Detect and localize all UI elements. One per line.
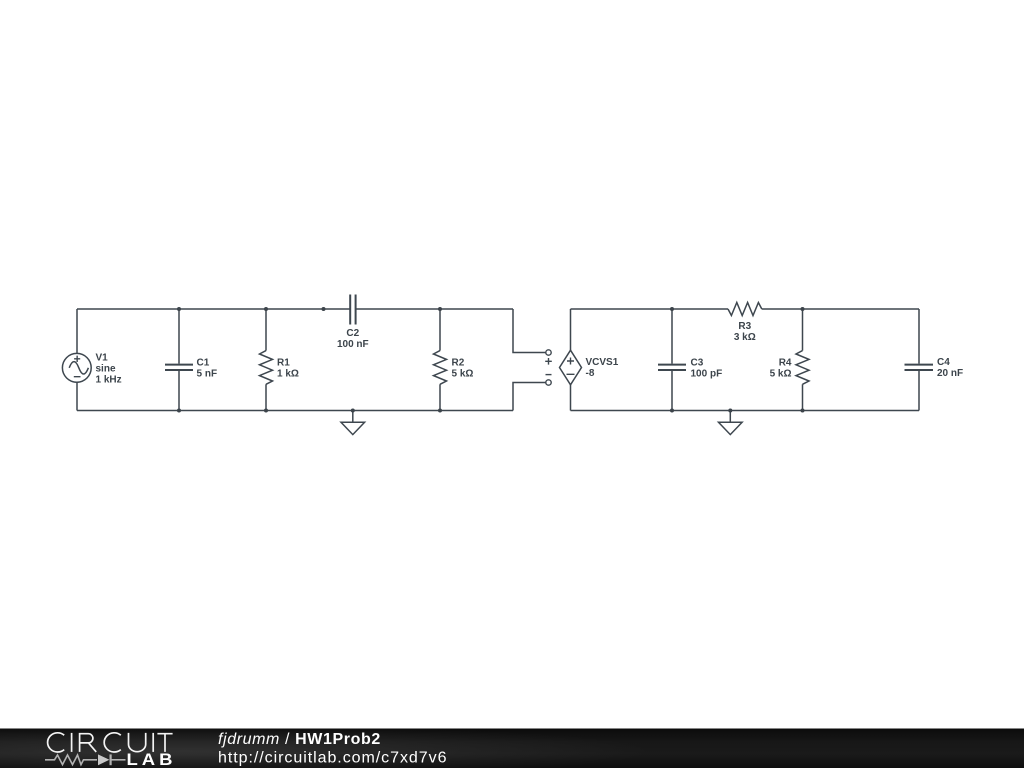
svg-text:C2: C2: [346, 328, 359, 339]
capacitor C4: [905, 309, 934, 411]
resistor R4: [796, 309, 809, 411]
svg-text:5 nF: 5 nF: [197, 368, 218, 379]
label C2 value: [337, 328, 369, 350]
junction R1 top: [264, 307, 268, 311]
wire output + lead: [513, 309, 546, 353]
junction C1 bottom: [177, 409, 181, 413]
svg-text:1 kΩ: 1 kΩ: [277, 368, 299, 379]
svg-text:C1: C1: [197, 358, 210, 369]
dependent source VCVS1: [560, 350, 582, 385]
footer url text: [218, 750, 447, 767]
logo CIRCUIT wordmark: [48, 733, 173, 752]
svg-text:5 kΩ: 5 kΩ: [452, 368, 474, 379]
junction ground GND1: [351, 409, 355, 413]
label R1 value: [277, 358, 299, 380]
svg-text:R1: R1: [277, 358, 290, 369]
svg-text:100 pF: 100 pF: [691, 368, 723, 379]
junction R2 bottom: [438, 409, 442, 413]
resistor R3: [728, 303, 762, 316]
svg-text:20 nF: 20 nF: [937, 368, 963, 379]
junction R2 top: [438, 307, 442, 311]
capacitor C3: [658, 309, 686, 411]
svg-text:1 kHz: 1 kHz: [96, 375, 122, 386]
wire top-left net: [77, 309, 513, 354]
svg-text:V1: V1: [96, 353, 109, 364]
logo LAB wordmark: [127, 750, 177, 768]
svg-text:R4: R4: [779, 358, 792, 369]
terminal - output: [546, 375, 552, 386]
svg-text:3 kΩ: 3 kΩ: [734, 332, 756, 343]
wire output - lead: [513, 383, 546, 411]
wire top-right net: [571, 309, 920, 350]
junction C3 bottom: [670, 409, 674, 413]
terminal + output: [545, 350, 552, 365]
junction C1 top: [177, 307, 181, 311]
capacitor C2: [350, 295, 355, 325]
label R3 value: [734, 321, 756, 343]
svg-text:LAB: LAB: [127, 750, 177, 768]
ground GND1: [341, 411, 365, 435]
svg-text:http://circuitlab.com/c7xd7v6: http://circuitlab.com/c7xd7v6: [218, 750, 447, 767]
svg-text:VCVS1: VCVS1: [586, 357, 619, 368]
footer bar: [0, 729, 1024, 768]
svg-text:sine: sine: [96, 364, 116, 375]
logo resistor-diode glyph: [45, 754, 126, 765]
footer title text: [218, 731, 381, 748]
svg-text:R3: R3: [738, 321, 751, 332]
svg-text:C4: C4: [937, 357, 950, 368]
junction node left of C2: [322, 307, 326, 311]
svg-text:-8: -8: [586, 368, 595, 379]
label V1 value: [96, 353, 122, 386]
svg-text:5 kΩ: 5 kΩ: [770, 368, 792, 379]
resistor R1: [260, 309, 273, 411]
label C1 value: [197, 358, 218, 380]
label R2 value: [452, 358, 474, 380]
resistor R2: [434, 309, 447, 411]
junction C3 top: [670, 307, 674, 311]
label R4 value: [770, 358, 792, 380]
svg-text:R2: R2: [452, 358, 465, 369]
label C3 value: [691, 358, 723, 380]
label C4 value: [937, 357, 963, 379]
label VCVS1 value: [586, 357, 619, 379]
svg-text:100 nF: 100 nF: [337, 339, 369, 350]
svg-text:fjdrumm / HW1Prob2: fjdrumm / HW1Prob2: [218, 731, 381, 748]
junction ground GND2: [728, 409, 732, 413]
ground GND2: [719, 411, 743, 435]
capacitor C1: [165, 309, 193, 411]
junction R1 bottom: [264, 409, 268, 413]
svg-text:C3: C3: [691, 358, 704, 369]
junction R4 bottom: [801, 409, 805, 413]
wire bottom-left net (ground net): [77, 382, 513, 410]
voltage source V1: [62, 353, 91, 382]
junction R4 top: [801, 307, 805, 311]
wire bottom-right net: [571, 385, 920, 411]
